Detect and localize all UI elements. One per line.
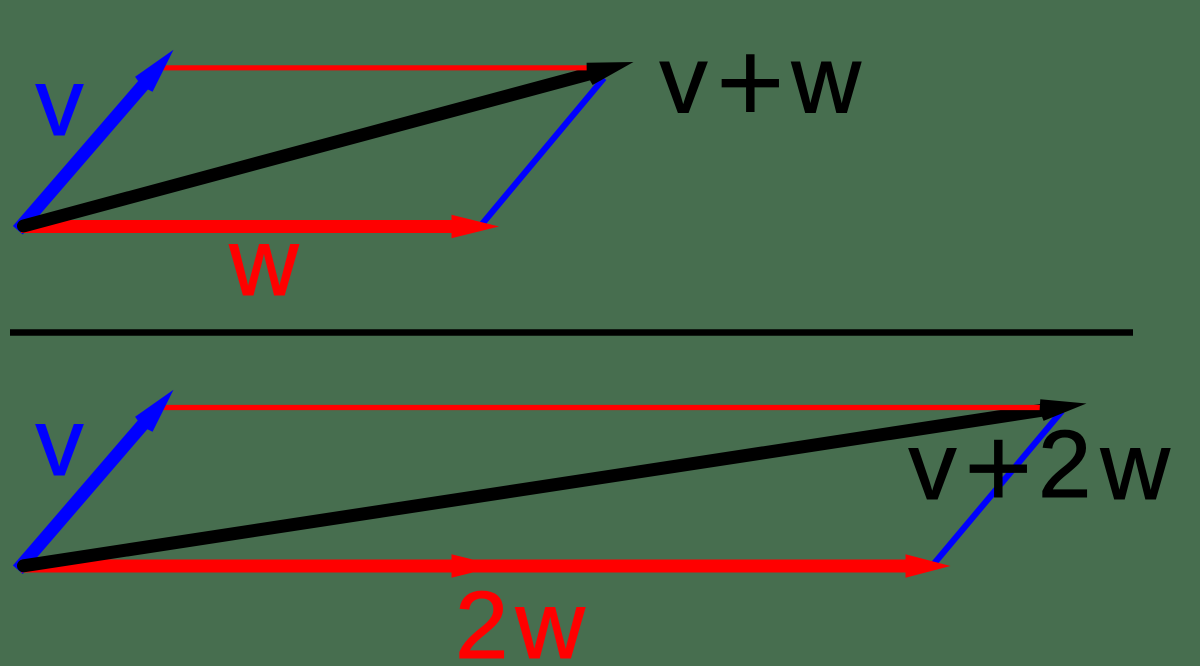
separator line — [10, 329, 1133, 336]
svg-text:2: 2 — [455, 572, 508, 666]
svg-text:v: v — [909, 413, 957, 520]
vector v shaft (blue, bottom) — [18, 419, 148, 570]
svg-text:2: 2 — [1038, 411, 1091, 518]
vector w shaft (red, top) — [21, 220, 452, 233]
wire: thin blue translated-v line (top) — [480, 78, 604, 227]
vector v arrowhead (blue, bottom) — [135, 390, 173, 432]
svg-text:w: w — [228, 209, 299, 316]
svg-text:v: v — [36, 49, 84, 156]
svg-text:w: w — [515, 572, 586, 666]
svg-text:+: + — [964, 402, 1033, 534]
svg-text:w: w — [791, 27, 862, 134]
vector v+2w shaft (black, bottom) — [24, 410, 1048, 566]
wire: thin red translated-2w line (bottom) — [160, 405, 1041, 410]
vector 2w shaft (red, bottom) — [21, 560, 906, 573]
svg-text:v: v — [660, 27, 708, 134]
vector v+2w arrowhead (black, bottom) — [1040, 399, 1087, 421]
vector v+w shaft (black, top) — [24, 72, 595, 226]
vector v arrowhead (blue, top) — [135, 50, 173, 92]
svg-text:+: + — [716, 17, 785, 149]
vector 2w mid arrowhead (red, bottom) — [452, 554, 500, 577]
vector v+w arrowhead (black, top) — [587, 62, 634, 85]
svg-text:v: v — [36, 389, 84, 496]
wire: thin blue translated-v line (bottom) — [932, 411, 1062, 566]
svg-text:w: w — [1100, 413, 1171, 520]
vector v shaft (blue, top) — [18, 80, 148, 230]
vector w arrowhead (red, top) — [452, 215, 500, 238]
vector 2w end arrowhead (red, bottom) — [906, 554, 951, 577]
wire: thin red translated-w line (top) — [160, 65, 591, 70]
